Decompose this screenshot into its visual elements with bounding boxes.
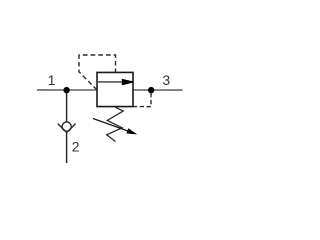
- svg-text:3: 3: [162, 72, 170, 88]
- svg-text:1: 1: [48, 72, 56, 88]
- svg-text:2: 2: [72, 138, 80, 154]
